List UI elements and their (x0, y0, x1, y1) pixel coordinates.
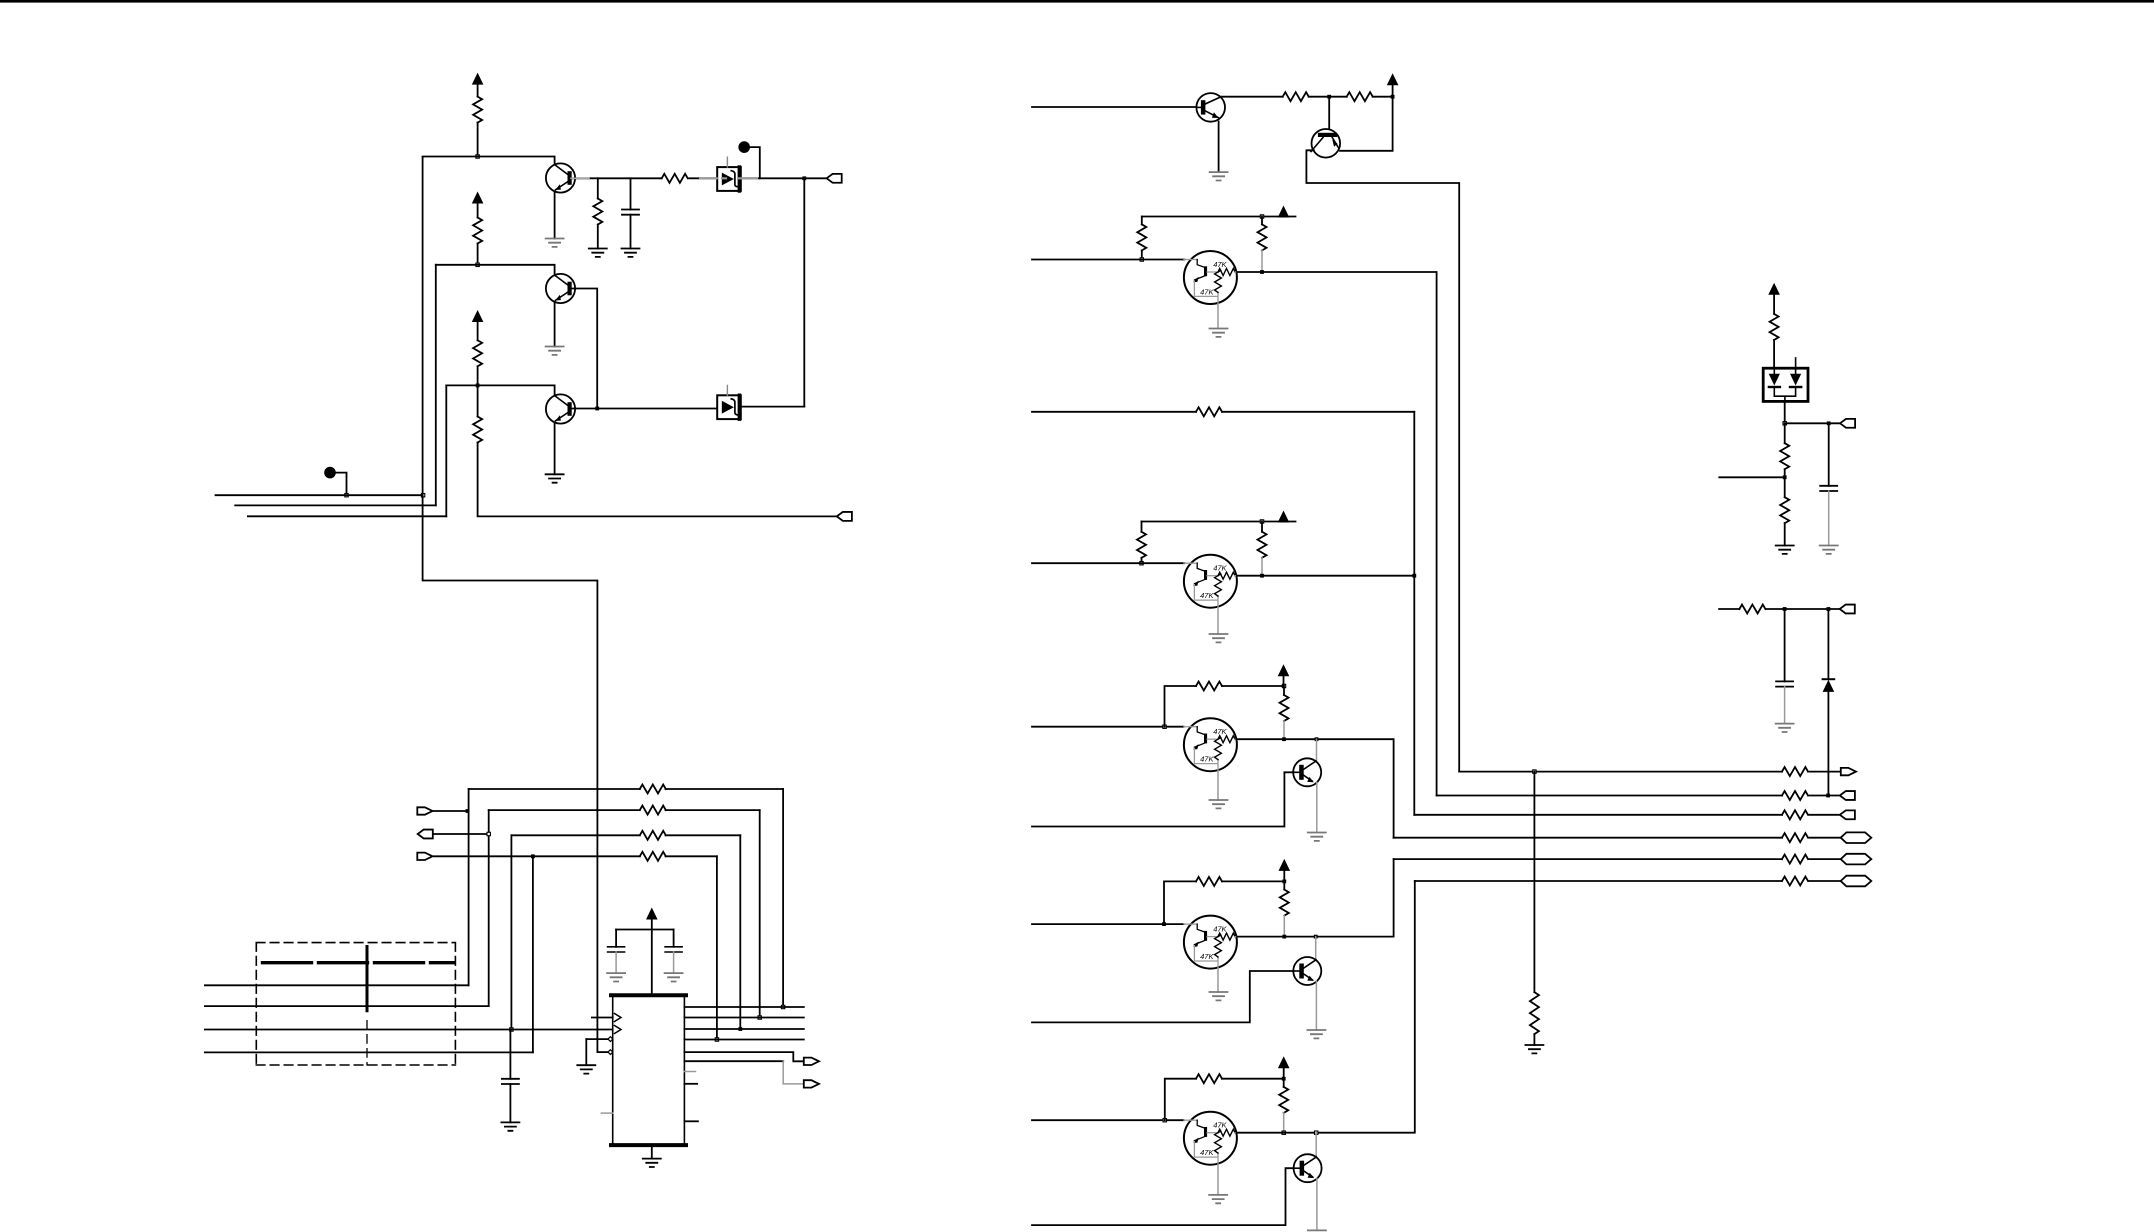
wire: V1 stem to R1 (477, 84, 479, 97)
digital transistor DT4 (1184, 916, 1237, 969)
connector tag X11 (hexagonal) (1841, 832, 1872, 843)
connector tag X5 (right-pointing, row4 input) (417, 853, 432, 860)
wire: bus2 vertical (line2 up to Q2 base rail) (435, 265, 437, 506)
ground (Q7) (1307, 1030, 1325, 1038)
transistor Q6 (1293, 758, 1321, 786)
wire: Q3 collector line to D2 (572, 408, 718, 410)
transistor Q8 (1294, 1154, 1322, 1182)
wire: R13 to input line (1141, 250, 1143, 258)
junction (input to rail riser) (1163, 1119, 1166, 1122)
junction (cap branch) (1827, 421, 1831, 425)
U1 right stub b (684, 1083, 697, 1085)
connector tag X6 (right-pointing) (804, 1058, 819, 1065)
wire: row O2 (1437, 795, 1840, 797)
resistor R33 (1780, 497, 1789, 523)
wire: Q4 base input line (1032, 106, 1196, 108)
wire: DT1 input line (1032, 259, 1184, 261)
U1 right pin line 5 (to tag X6) (684, 1052, 803, 1061)
wire: DT2 top rail (1142, 521, 1296, 523)
junction (divider node) (1783, 422, 1786, 425)
wire: R32 lead (1784, 423, 1786, 443)
wire: C5 branch (1828, 423, 1830, 486)
resistor R31 (1770, 314, 1779, 340)
junction (+B node) (1282, 880, 1286, 884)
resistor R7 (row1) (640, 785, 666, 794)
connector tag X10 (left-pointing) (1840, 810, 1855, 819)
wire: DT1 collector to bus (1237, 272, 1436, 796)
capacitor C6 (1776, 681, 1793, 686)
ground (U1) (643, 1159, 661, 1167)
wire: gray collector stub (571, 177, 589, 179)
resistor R26 (O3) (1782, 810, 1808, 819)
wire: D3 to junction (1784, 402, 1786, 422)
wire: R6 down to tag line (478, 443, 837, 517)
wire: Q7 emitter to ground (1315, 981, 1317, 1030)
wire: Q7 collector riser (1315, 937, 1317, 960)
wire: V4 stem (1392, 84, 1394, 97)
ground (DT1) (1210, 329, 1228, 337)
junction (input to rail riser) (1163, 725, 1166, 728)
resistor R34 (1739, 605, 1765, 614)
junction (R12 to +B) (1391, 95, 1395, 99)
U1 right stub c (684, 1120, 698, 1122)
power +B arrow V6 (1278, 511, 1290, 523)
capacitor C3 (608, 947, 625, 952)
U1 right pin line 4 (684, 1039, 803, 1041)
junction (rail/right resistor) (1260, 215, 1263, 218)
wire: DT5 collector line to O6 bus (1237, 881, 1415, 1133)
wire C (to IC clock pin 2) (205, 1029, 613, 1031)
ground (DT4) (1210, 992, 1228, 1000)
junction (C6 branch) (1783, 607, 1787, 611)
junction (R17 on collector line) (1260, 574, 1264, 578)
wire: DT2 input line (1032, 562, 1184, 564)
junction (D4 branch) (1827, 607, 1831, 611)
node A (junction on Q1 base line) (476, 155, 479, 158)
wire: DT4 input line (1032, 923, 1184, 925)
wire: C4 to ground (673, 952, 675, 973)
border: top edge black line (0, 0, 2154, 3)
wire: row2-right corner vertical down to wire B (488, 810, 490, 1006)
wire: riser to top rail (1165, 686, 1197, 727)
wire: D4 to O2 row (1827, 692, 1829, 796)
resistor R22 (rail, horizontal) (1196, 1074, 1222, 1083)
ground (C3) (607, 973, 625, 981)
resistor R4 (pull-up, vertical) (473, 218, 482, 244)
wire: C1 to ground (630, 215, 632, 249)
power +B arrow V10 (1768, 283, 1780, 295)
wire: pin6 drop (gray) (783, 1061, 804, 1084)
wire: Q5 base from junction (1328, 97, 1330, 133)
wire: V9 stem (1283, 1067, 1285, 1079)
wire: R15 row down bus to O3 (1413, 412, 1415, 815)
resistor R10 (row4) (640, 852, 666, 861)
wire: DT2 emitter to ground (1217, 608, 1219, 634)
wire: riser to top rail (1164, 881, 1196, 924)
ground (DT2) (1210, 634, 1228, 642)
wire: C6 to ground (1784, 687, 1786, 724)
wire: V7 stem (1283, 675, 1285, 686)
wire: Q2 base line (436, 265, 555, 275)
diode D2 (boxed photo-diode) (717, 385, 741, 419)
wire: bus3 vertical (line3 up to Q3 base rail) (445, 385, 447, 516)
wire D (205, 1051, 533, 1053)
wire: stub left from node2 (1719, 476, 1784, 478)
cable divider (thin dashed lower) (366, 1021, 368, 1065)
junction (+B node) (1282, 1077, 1286, 1081)
resistor R16 (left bias) (1137, 532, 1146, 558)
power +B arrow V7 (1278, 664, 1290, 676)
wire: vertical row1-left down to wire A (468, 789, 470, 985)
power +B arrow V4 (1387, 73, 1399, 85)
pin 1 clock glyph (615, 1014, 622, 1022)
ground (Q3) (546, 474, 564, 482)
node B (junction on Q2 base line) (476, 263, 479, 266)
U1 right pin line 6 (to tag X7) (684, 1060, 783, 1062)
power +B arrow V2 (472, 192, 484, 204)
junction (row4 vertical to IC pin line) (715, 1038, 718, 1041)
wire: DT1 top rail (1142, 216, 1296, 218)
wire: R16 top lead (1141, 522, 1143, 532)
U1 right pin line 3 (684, 1028, 803, 1030)
wire: riser to top rail (1165, 1079, 1196, 1121)
wire: R21 to collector line (1283, 916, 1285, 937)
test point TP1 (black dot) (738, 141, 750, 153)
diode D3 (dual diode pack) (1763, 368, 1808, 401)
U1 right pin line 1 (684, 1006, 803, 1008)
resistor R21 (collector pull-up) (1280, 890, 1289, 916)
resistor R30 (bleeder, long) (1530, 992, 1539, 1034)
diode D1 (boxed photo-diode) (717, 157, 741, 191)
wire: Q1 collector output line to tag (571, 177, 827, 179)
ground (Q2) (546, 347, 564, 355)
wire: V11 stem through rail to U1 top pin (651, 919, 653, 996)
wire: Q1 emitter to ground (554, 191, 556, 238)
junction (DT2 collector on bus) (1412, 574, 1416, 578)
connector tag X7 (right-pointing) (804, 1080, 819, 1087)
wire: R21 top lead (1283, 881, 1285, 889)
wire: Q8 base line from left input (1032, 1168, 1294, 1225)
connector tag X8 (right-pointing) (1841, 768, 1856, 775)
connector tag X12 (hexagonal) (1841, 854, 1872, 865)
wire: R32 to node2 (1784, 469, 1786, 477)
pin 4 wire (inverted, from bus1) (597, 1051, 608, 1053)
junction (R11/R12/Q5 base) (1327, 95, 1331, 99)
wire: row O5 (1394, 858, 1841, 860)
wire: row3 left from tag to junction (434, 833, 489, 835)
ground (Q6) (1308, 833, 1326, 841)
capacitor C2 (on wire C branch) (509, 1030, 511, 1079)
wire: Q8 collector riser (1315, 1133, 1317, 1157)
junction (row3-left on vertical) (487, 832, 490, 835)
resistor R8 (row2) (640, 806, 666, 815)
diode D4 (vertical, cathode up) (1823, 678, 1835, 680)
wire: R6 top lead (477, 385, 479, 416)
resistor R23 (collector pull-up) (1279, 1087, 1288, 1113)
wire: DT4 emitter to ground (1217, 969, 1219, 992)
connector tag X14 (left-pointing) (1840, 419, 1855, 428)
wire: V3 stem (477, 321, 479, 340)
resistor R2 (to ground, vertical) (593, 199, 602, 225)
U1 left stub (601, 1112, 612, 1114)
wire: row3-right corner vertical down to wire C (510, 835, 512, 1027)
wire: O1 bleeder vertical (1533, 772, 1535, 993)
wire: C2 to ground (509, 1084, 511, 1122)
wire: rail to +B junction (1222, 1078, 1284, 1080)
ground (C6) (1776, 724, 1794, 732)
wire: Q4 collector line (1222, 96, 1393, 98)
wire: vertical link D1 row to D2 row (803, 178, 805, 406)
junction (R19 on collector line) (1282, 737, 1286, 741)
wire: pin3 to ground (585, 1039, 587, 1065)
junction dot (row3 vertical to IC pin line) (738, 1027, 742, 1031)
junction (node3 on Q3 base line) (476, 384, 480, 388)
wire: R23 to collector line (1283, 1113, 1285, 1133)
junction (row3 vertical on wire C) (510, 1028, 513, 1031)
wire: row1 (resistor row) (469, 788, 783, 790)
wire: C5 to ground (1828, 491, 1830, 546)
junction (rail/right resistor) (1260, 520, 1263, 523)
digital transistor DT3 (1184, 718, 1237, 771)
wire: C4 lead (673, 930, 675, 947)
junction (R23 on collector line) (1282, 1131, 1285, 1134)
ground (Q4) (1210, 172, 1228, 180)
resistor R17 (collector pull-up) (1258, 532, 1267, 558)
connector tag X15 (left-pointing) (1840, 605, 1855, 614)
wire: row2 right vertical down to IC pin line (759, 810, 761, 1016)
junction (input to rail riser) (1162, 922, 1166, 926)
junction (row2 vertical to IC pin line) (758, 1016, 761, 1019)
wire: R31 to D3 box (1773, 340, 1775, 368)
capacitor C5 (1820, 486, 1837, 491)
wire: R30 to ground (1533, 1034, 1535, 1045)
wire: row O6 (1415, 880, 1841, 882)
wire: R23 top lead (1283, 1079, 1285, 1087)
wire: DT3 emitter to ground (1217, 771, 1219, 800)
wire: left input line 1 (216, 494, 422, 496)
wire: R14 to collector line (1261, 250, 1263, 272)
resistor R14 (collector pull-up) (1258, 224, 1267, 250)
transistor Q3 (546, 394, 575, 423)
junction (R16 on input line) (1140, 562, 1143, 565)
resistor R11 (1283, 92, 1309, 101)
wire: D4 branch upper (1827, 609, 1829, 679)
digital transistor DT5 (1184, 1112, 1237, 1165)
ground (C2) (501, 1122, 519, 1130)
wire: Q8 emitter to ground (1316, 1178, 1318, 1230)
power +B arrow V3 (472, 310, 484, 322)
wire: row4 tap vertical down to wire D (532, 856, 534, 1052)
wire: R14 top lead (1261, 217, 1263, 225)
junction (TP2 on line1) (345, 494, 348, 497)
connector tag X13 (hexagonal) (1841, 876, 1872, 887)
wire: row O3 (1414, 814, 1840, 816)
junction (R13 on input line) (1140, 258, 1143, 261)
wire: U1 bottom pin to ground (651, 1145, 653, 1159)
connector tag X9 (left-pointing) (1840, 791, 1855, 800)
wire: DT2 collector to bus (1237, 575, 1414, 577)
pin 3 wire (inverted input) (586, 1038, 608, 1040)
wire: Q6 emitter to ground (1316, 783, 1318, 833)
wire: Q2 emitter to ground (554, 302, 556, 347)
ground (Q8, clipped at bottom) (1308, 1230, 1326, 1232)
wire: Q2 collector to bus (572, 289, 598, 409)
junction (vertical bus to D2 row) (802, 176, 806, 180)
wire: D2 to vertical link (741, 406, 805, 408)
wire: Q6 base line from left input (1032, 772, 1293, 826)
wire: bus1 vertical (Q1 base rail down to IC bus) (423, 157, 598, 1052)
ground (DT5) (1209, 1195, 1227, 1203)
U1 right pin line 2 (684, 1017, 803, 1019)
power +B arrow V11 (above U1) (646, 908, 658, 920)
ground (R33) (1776, 546, 1794, 554)
resistor R15 (1196, 407, 1222, 416)
wire: R19 to collector line (1283, 721, 1285, 739)
digital transistor DT2 (1184, 555, 1237, 608)
ground (C1) (622, 249, 640, 257)
junction (Q6 collector on line) (1315, 737, 1319, 741)
transistor Q5 (rotated) (1312, 129, 1341, 158)
wire: R4 to node2 (477, 244, 479, 265)
power +B arrow V5 (1278, 206, 1290, 218)
wire: C3 to ground (615, 952, 617, 973)
wire: R5 to node3 (477, 366, 479, 385)
wire: DT3 collector line to O4 bus (1236, 739, 1393, 838)
resistor R1 (pull-up, vertical) (473, 97, 482, 123)
resistor R28 (O5) (1782, 855, 1808, 864)
power +B arrow V1 (472, 73, 484, 85)
wire: V2 stem (477, 203, 479, 218)
wire: DT5 emitter to ground (1217, 1165, 1219, 1195)
junction dot (row4 tap) (531, 854, 535, 858)
wire: R16 to input line (1141, 558, 1143, 562)
resistor R6 (below node3, vertical) (473, 417, 482, 443)
capacitor C1 (622, 210, 639, 215)
resistor R27 (O4) (1782, 833, 1808, 842)
wire: C6 branch (1784, 609, 1786, 681)
resistor R20 (rail, horizontal) (1196, 877, 1222, 886)
wire: R2 to ground (597, 225, 599, 249)
wire: Q1 base line (423, 157, 555, 165)
ground (Q1) (546, 239, 564, 247)
wire: left input line 3 (248, 515, 446, 517)
wire: C3 lead (615, 930, 617, 947)
cable divider (thick vertical) (366, 947, 369, 1011)
resistor R12 (1347, 92, 1373, 101)
wire: row3 right vertical down to IC pin line (739, 835, 741, 1029)
wire: R13 top lead (1141, 217, 1143, 225)
wire: Q6 collector riser (1316, 739, 1318, 761)
connector tag X4 (left-pointing, row3) (418, 830, 433, 839)
wire: V8 stem (1283, 870, 1285, 882)
wire: rail to +B junction (1222, 685, 1284, 687)
wire: row2 right segment (489, 809, 760, 811)
resistor R5 (pull-up, vertical) (473, 340, 482, 366)
wire: left input line 2 (235, 504, 436, 506)
wire: V10 stem (1773, 294, 1775, 314)
wire: row O4 (1394, 837, 1841, 839)
resistor R18 (rail, horizontal) (1196, 682, 1222, 691)
junction (R14 on collector line) (1260, 270, 1264, 274)
wire: rail to +B junction (1222, 880, 1284, 882)
resistor R24 (O1) (1782, 767, 1808, 776)
wire B (205, 1005, 489, 1007)
wire: Q7 base line from left input (1032, 971, 1293, 1022)
ground (R30) (1525, 1045, 1543, 1053)
resistor R32 (1780, 443, 1789, 469)
wire: Q3 emitter to ground (554, 422, 556, 474)
wire: gray segment through D1 (700, 177, 757, 179)
wire: node to tag X14 (1785, 422, 1840, 424)
resistor R19 (collector pull-up) (1280, 695, 1289, 721)
ground (pin3) (577, 1065, 595, 1073)
wire: Q3 base line (446, 385, 554, 395)
wire: row4 (434, 855, 717, 857)
wire: Q4 emitter to ground (1218, 122, 1220, 173)
transistor Q4 (1196, 93, 1225, 122)
wire: R1 to node1 (477, 123, 479, 157)
ground (DT3) (1210, 800, 1228, 808)
wire: U1 bypass rail (616, 929, 674, 931)
connector tag X2 (left-pointing) (837, 512, 852, 521)
pin 2 clock glyph (615, 1026, 622, 1034)
ground (C4) (665, 973, 683, 981)
power +B arrow V9 (1278, 1056, 1290, 1068)
wire: DT3 input line (1032, 726, 1184, 728)
wire: mid row (1719, 608, 1840, 610)
wire: R17 top lead (1261, 522, 1263, 532)
junction (Q7 collector on line) (1314, 935, 1318, 939)
junction (row2 joins vertical from row1) (466, 809, 470, 813)
junction (R2 top on collector line) (597, 178, 599, 198)
cable shield line (thick dashed) (263, 961, 455, 964)
ground (C5) (1820, 546, 1838, 554)
wire: row4 right vertical down to IC pin line (716, 856, 718, 1038)
junction (Q2 collector joins) (595, 407, 599, 411)
connector tag X3 (right-pointing, row2 input) (417, 807, 432, 814)
resistor R29 (O6) (1782, 877, 1808, 886)
junction (+B node) (1282, 684, 1285, 687)
junction (lower divider node) (1783, 475, 1787, 479)
wire: input line 3 (1032, 411, 1414, 413)
resistor R3 (series, horizontal) (662, 174, 688, 183)
digital transistor DT1 (1184, 251, 1237, 304)
junction (row1 vertical to IC pin line) (781, 1005, 784, 1008)
pin 1 stub (clock input) (592, 1017, 613, 1019)
power +B arrow V8 (1279, 859, 1291, 871)
pin 3 diamond (608, 1037, 613, 1042)
wire: row2 left from tag to bus (434, 810, 467, 812)
IC U1 (body) (613, 995, 685, 1145)
ground (R2) (589, 249, 607, 257)
wire: Q5 emitter to +B rail (1340, 97, 1393, 151)
transistor Q7 (1293, 957, 1321, 985)
connector CN1 (dashed shielded cable box) (256, 943, 455, 1065)
wire: node2 to R33 and ground (1784, 477, 1786, 545)
wire: row O1 (1459, 771, 1841, 773)
wire: DT5 input line (1032, 1119, 1184, 1121)
U1 right stub a (684, 1071, 695, 1073)
resistor R25 (O2) (1782, 791, 1808, 800)
junction (O1 to bleeder) (1533, 770, 1536, 773)
wire: row1 right vertical down to IC pin line (782, 789, 784, 1006)
wire A (to dashed connector) (205, 984, 469, 986)
pin 4 diamond (608, 1050, 613, 1055)
resistor R13 (left bias) (1137, 224, 1146, 250)
transistor Q2 (546, 274, 575, 303)
connector tag X1 (left-pointing) (827, 174, 842, 183)
junction (diode branch on O2) (1826, 794, 1830, 798)
